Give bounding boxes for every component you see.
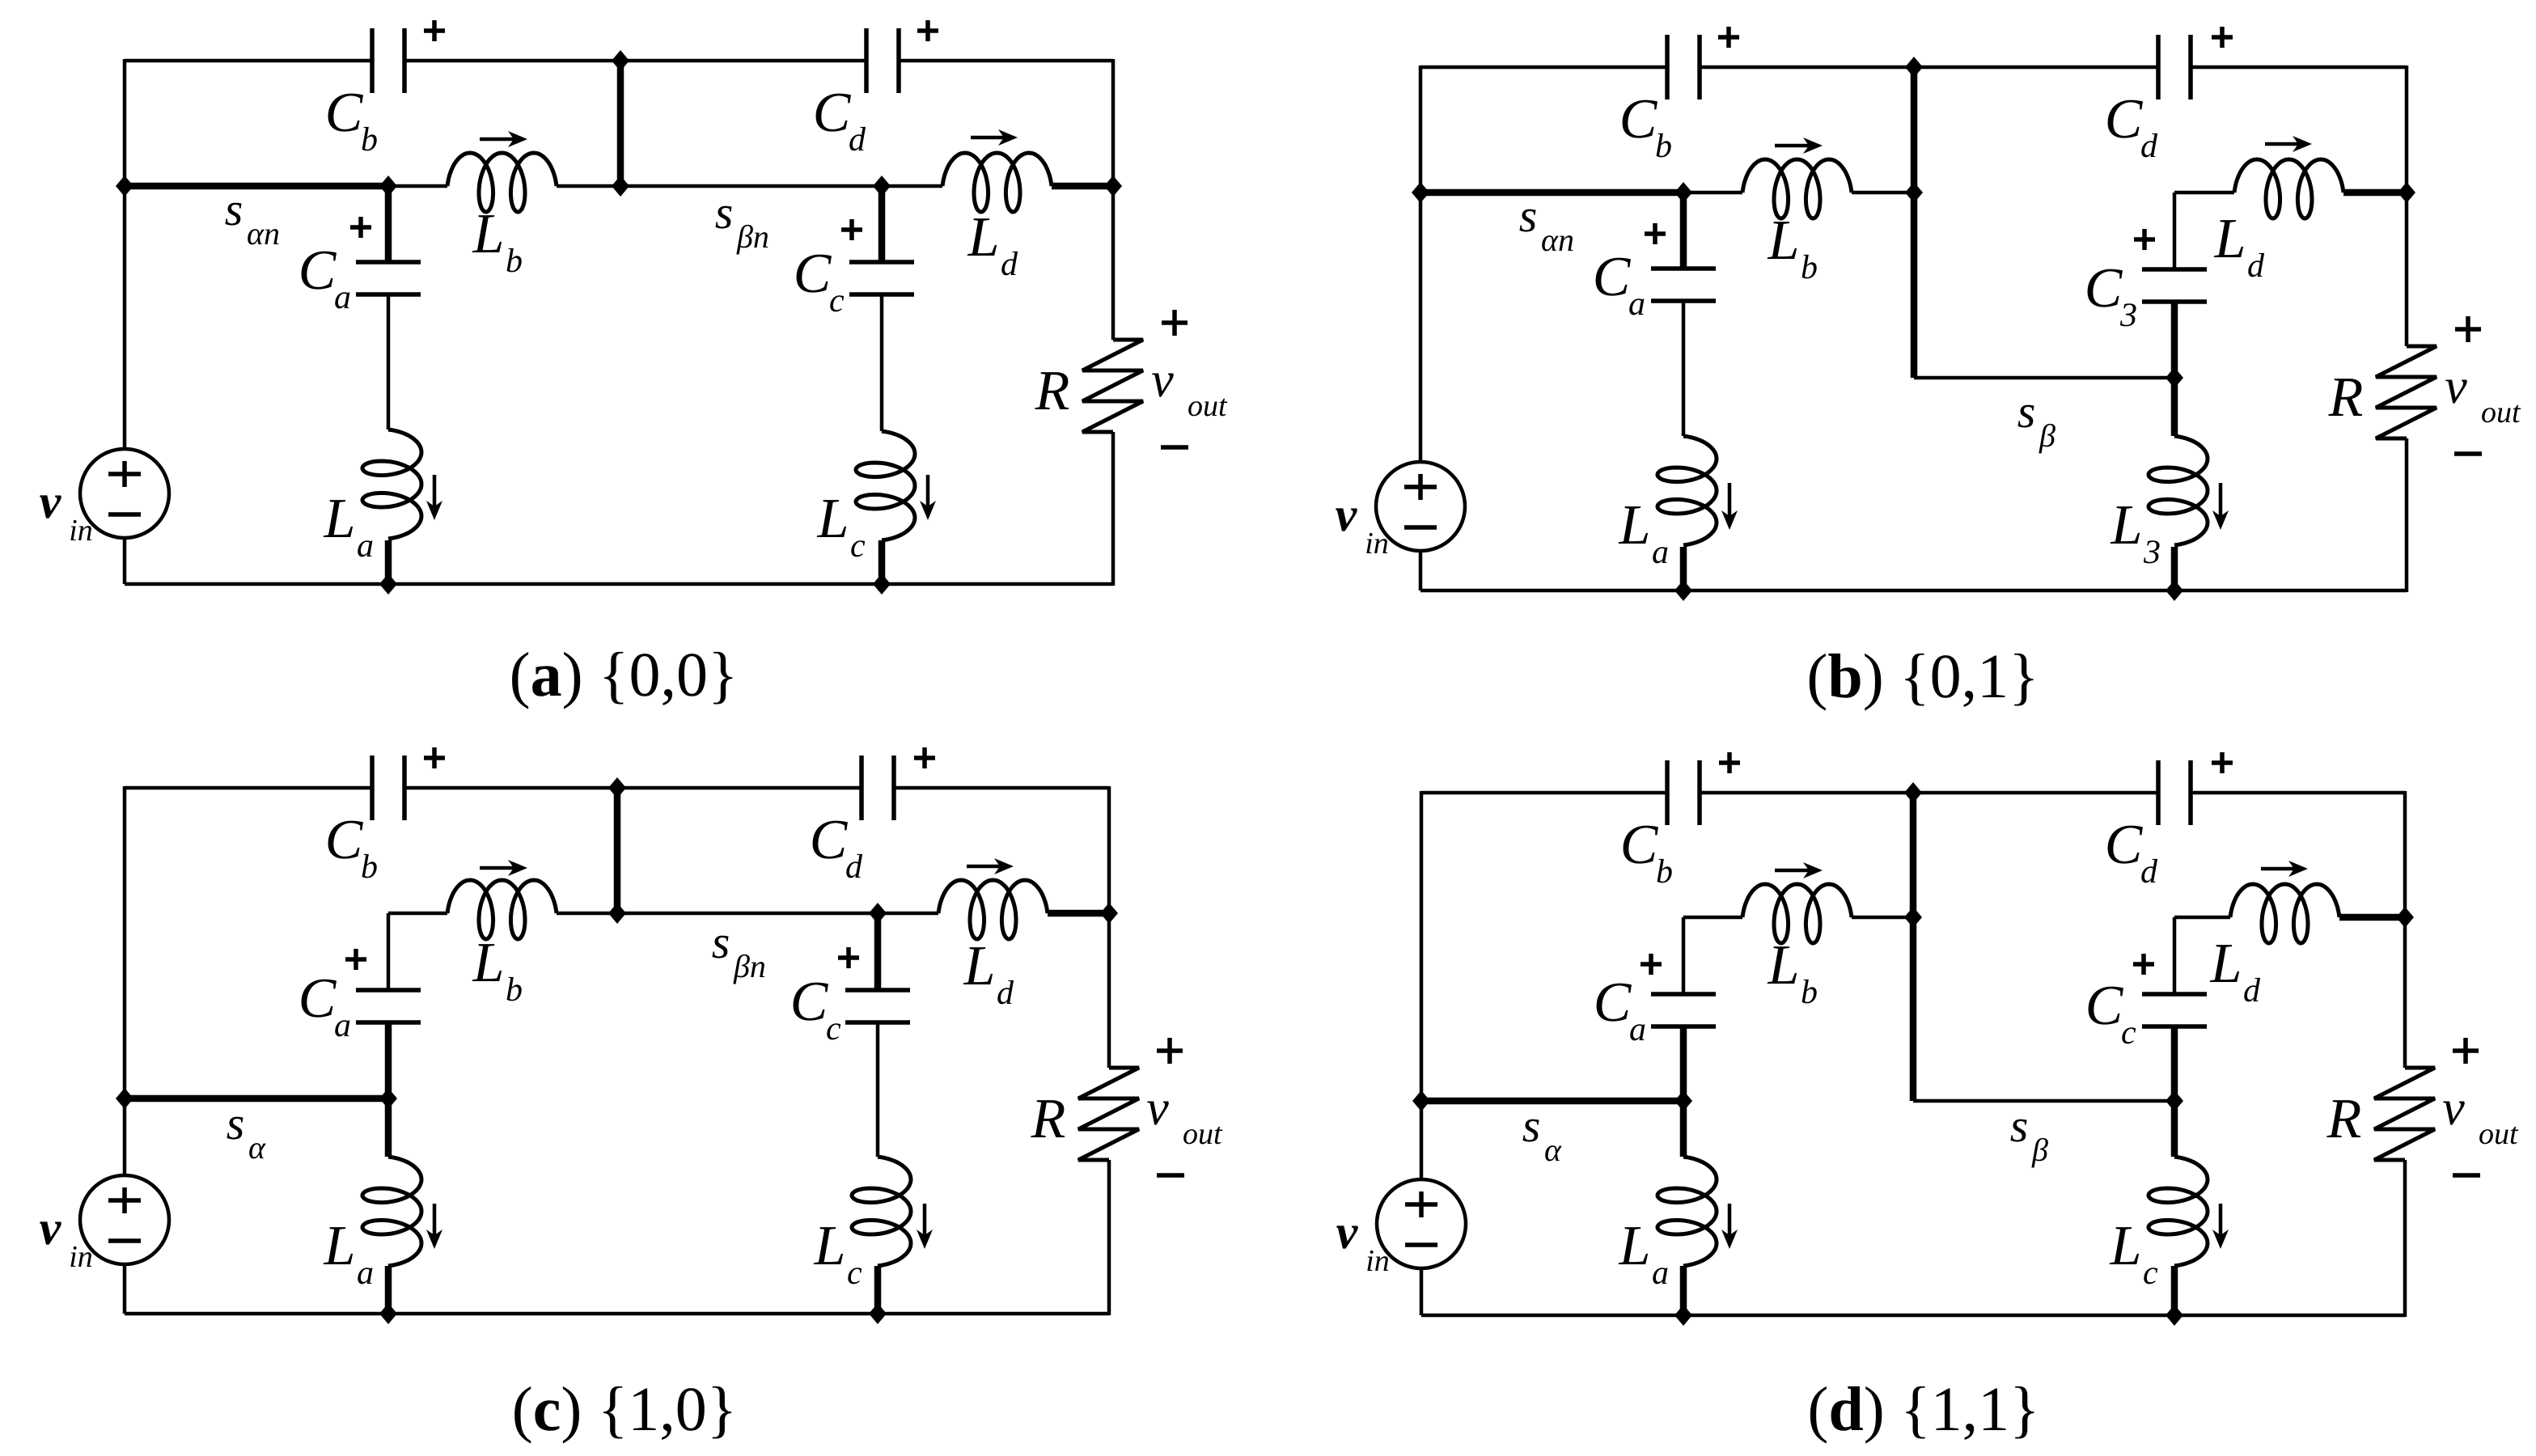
capacitor Cd D xyxy=(2158,760,2191,825)
svg-text:L: L xyxy=(817,488,849,550)
svg-text:α: α xyxy=(1544,1132,1562,1168)
node C node2-mid xyxy=(869,903,887,924)
plus sign Cd A xyxy=(917,20,938,41)
capacitor C3 B xyxy=(2142,269,2207,302)
wire C s_a node to La (thick) xyxy=(385,1098,392,1157)
wire B node1 to Ca (thick) xyxy=(1680,193,1687,269)
node D center-mid xyxy=(1904,907,1922,928)
label vin C xyxy=(40,1201,93,1274)
svg-text:3: 3 xyxy=(2143,534,2161,571)
svg-text:L: L xyxy=(472,932,505,994)
wire D Ca to s_a node (thick) xyxy=(1680,1026,1687,1101)
wire B left rail lower xyxy=(1419,551,1423,590)
svg-text:in: in xyxy=(69,1240,93,1274)
label Lc D xyxy=(2110,1215,2158,1292)
svg-text:b: b xyxy=(1801,249,1818,286)
label Cb A xyxy=(325,82,378,159)
arrow current Lb A xyxy=(480,131,527,147)
svg-text:L: L xyxy=(324,1215,356,1277)
capacitor Ca D xyxy=(1651,994,1716,1026)
svg-text:a: a xyxy=(1628,286,1645,323)
svg-text:out: out xyxy=(1183,1117,1223,1151)
svg-text:C: C xyxy=(2085,975,2124,1037)
plus sign Ca A xyxy=(350,217,371,238)
inductor Lc A xyxy=(856,431,915,540)
label switch s_a C xyxy=(227,1097,266,1166)
arrow current Ld D xyxy=(2261,861,2308,877)
svg-text:a: a xyxy=(334,279,351,316)
arrow current La C xyxy=(426,1204,442,1249)
label Cd A xyxy=(813,82,866,159)
wire C mid rail center to node2 (s_bn) xyxy=(617,912,878,916)
wire D Ld left lead corner xyxy=(2174,916,2230,920)
svg-text:b: b xyxy=(361,849,378,886)
wire A Ld to right rail (thick) xyxy=(1052,183,1113,190)
svg-text:L: L xyxy=(2110,1215,2142,1277)
wire D center column (thick) xyxy=(1910,793,1917,1101)
svg-text:R: R xyxy=(1031,1088,1066,1150)
plus sign Cd B xyxy=(2212,27,2233,48)
inductor La D xyxy=(1658,1157,1717,1266)
wire C top rail middle segment xyxy=(404,786,862,790)
wire A top rail middle segment xyxy=(404,59,866,63)
voltage source vin A xyxy=(80,449,169,538)
wire B right rail lower xyxy=(2405,438,2409,592)
svg-text:L: L xyxy=(963,935,996,997)
node A center-top xyxy=(612,50,629,71)
label vout C xyxy=(1146,1081,1223,1151)
resistor R D xyxy=(2374,1068,2435,1160)
resistor R B xyxy=(2376,346,2437,438)
plus sign Cb C xyxy=(424,747,445,768)
wire D switch s_a closed (thick) xyxy=(1421,1098,1683,1105)
arrow current L3 B xyxy=(2212,483,2229,530)
svg-text:αn: αn xyxy=(1541,222,1574,258)
label vout minus C xyxy=(1157,1173,1184,1178)
inductor Lb C xyxy=(447,880,557,939)
svg-text:L: L xyxy=(967,206,1000,269)
svg-text:a: a xyxy=(357,1255,374,1292)
svg-text:L: L xyxy=(2111,494,2143,557)
wire C switch s_a closed (thick) xyxy=(125,1095,388,1103)
wire A top rail left segment xyxy=(125,59,372,63)
label Lc A xyxy=(817,488,866,565)
svg-text:C: C xyxy=(794,243,832,305)
label vin B xyxy=(1336,488,1389,561)
label Cb B xyxy=(1619,88,1672,165)
label vin D xyxy=(1336,1205,1390,1278)
node D node1-s_a xyxy=(1674,1090,1692,1111)
label Ca D xyxy=(1594,971,1646,1048)
arrow current Lc D xyxy=(2212,1204,2229,1249)
wire D s_b node to Lc (thick) xyxy=(2171,1101,2178,1157)
svg-text:out: out xyxy=(1188,389,1228,423)
svg-text:R: R xyxy=(2326,1088,2362,1150)
node B center-top xyxy=(1905,57,1923,78)
wire D right rail lower xyxy=(2403,1160,2407,1317)
inductor Ld C xyxy=(938,880,1048,939)
label La D xyxy=(1619,1215,1669,1292)
plus sign Cc D xyxy=(2133,954,2154,975)
svg-text:R: R xyxy=(1035,360,1070,422)
label switch s_a D xyxy=(1522,1099,1562,1168)
label Cb C xyxy=(325,809,378,886)
svg-text:L: L xyxy=(814,1215,846,1277)
inductor Lb B xyxy=(1742,159,1852,218)
wire B Ld corner down to C3 xyxy=(2173,193,2177,270)
wire B Ld to right rail (thick) xyxy=(2343,189,2407,197)
wire C right rail upper xyxy=(1107,786,1111,1068)
svg-text:v: v xyxy=(2442,1081,2465,1136)
svg-text:v: v xyxy=(1146,1081,1169,1136)
svg-text:s: s xyxy=(227,1097,245,1149)
svg-text:L: L xyxy=(472,203,505,265)
arrow current La D xyxy=(1721,1204,1738,1249)
resistor R A xyxy=(1082,340,1143,432)
arrow current La A xyxy=(426,475,442,520)
voltage source vin D xyxy=(1377,1179,1466,1268)
svg-text:a: a xyxy=(357,527,374,565)
capacitor Ca C xyxy=(356,990,421,1022)
node C node2-bottom xyxy=(869,1303,887,1324)
wire C Ld to right rail (thick) xyxy=(1048,910,1109,917)
label L3 B xyxy=(2111,494,2161,571)
svg-text:β: β xyxy=(2039,417,2055,454)
svg-text:b: b xyxy=(506,243,523,280)
label Cc A xyxy=(794,243,845,320)
label vout plus B xyxy=(2455,316,2481,342)
svg-text:βn: βn xyxy=(736,218,769,255)
wire B bottom rail xyxy=(1420,589,2407,593)
label Lb B xyxy=(1768,210,1818,286)
wire A node2 to Cc (thick) xyxy=(878,186,886,262)
node A node2-mid xyxy=(873,176,891,197)
label Ca B xyxy=(1593,246,1645,323)
svg-text:C: C xyxy=(1620,814,1659,876)
svg-text:L: L xyxy=(2214,208,2246,270)
svg-text:C: C xyxy=(1619,88,1658,150)
label Lb D xyxy=(1768,934,1818,1011)
capacitor Cb B xyxy=(1667,35,1700,99)
wire C top rail left segment xyxy=(125,786,372,790)
svg-text:3: 3 xyxy=(2119,297,2137,334)
svg-text:L: L xyxy=(2210,933,2242,995)
capacitor Cd A xyxy=(866,28,899,93)
svg-text:b: b xyxy=(1655,128,1672,165)
wire A right rail upper xyxy=(1111,59,1116,340)
label Ld A xyxy=(967,206,1018,283)
plus sign Cc C xyxy=(838,947,859,968)
label Lb C xyxy=(472,932,523,1009)
arrow current Ld A xyxy=(971,129,1018,146)
label vout minus A xyxy=(1161,445,1188,450)
svg-text:C: C xyxy=(2105,88,2144,150)
node B node1-bottom xyxy=(1674,580,1692,601)
label vout B xyxy=(2445,359,2521,430)
wire A switch s_an closed (thick) xyxy=(125,183,388,190)
wire B s_b node to L3 (thick) xyxy=(2171,378,2178,436)
wire D Lb corner down to Ca xyxy=(1682,917,1686,995)
wire D top rail middle segment xyxy=(1700,791,2158,795)
svg-text:a: a xyxy=(1652,534,1669,571)
svg-text:(a) {0,0}: (a) {0,0} xyxy=(510,639,739,709)
capacitor Cb D xyxy=(1667,760,1700,825)
svg-text:d: d xyxy=(2243,972,2261,1009)
wire A mid rail Lb to center xyxy=(557,184,620,188)
svg-text:v: v xyxy=(40,1201,62,1255)
wire D Ld corner down to Cc xyxy=(2173,917,2177,995)
node C node1-s_a xyxy=(379,1088,397,1109)
node B node3-bottom xyxy=(2166,580,2183,601)
svg-text:a: a xyxy=(1629,1011,1646,1048)
plus sign Ca B xyxy=(1645,223,1666,244)
label vout plus C xyxy=(1157,1038,1183,1064)
node C right-mid xyxy=(1100,903,1118,924)
arrow current Lb D xyxy=(1775,862,1823,878)
svg-text:C: C xyxy=(1593,246,1632,308)
inductor Lc C xyxy=(852,1157,911,1266)
label La A xyxy=(324,488,374,565)
wire C center column (thick) xyxy=(614,788,621,913)
wire C Cc to Lc xyxy=(876,1022,880,1157)
svg-text:d: d xyxy=(997,975,1014,1012)
wire C Lb corner down to Ca xyxy=(387,913,391,990)
svg-text:α: α xyxy=(248,1129,266,1166)
plus sign Cb D xyxy=(1719,752,1740,773)
node A node1-mid xyxy=(379,176,397,197)
label vout plus A xyxy=(1162,310,1188,336)
node D right-mid xyxy=(2396,907,2414,928)
svg-text:s: s xyxy=(1522,1099,1541,1152)
node A left-mid xyxy=(116,176,133,197)
svg-text:L: L xyxy=(1768,934,1800,997)
svg-text:d: d xyxy=(2140,853,2158,891)
svg-text:in: in xyxy=(1365,527,1389,561)
node D node1-bottom xyxy=(1674,1305,1692,1326)
plus sign Cc A xyxy=(841,219,862,240)
label Ld D xyxy=(2210,933,2261,1009)
label Ca C xyxy=(298,967,351,1044)
wire A mid rail node2 to Ld xyxy=(882,184,942,188)
svg-text:d: d xyxy=(845,849,863,886)
arrow current Lc A xyxy=(920,475,936,520)
svg-text:L: L xyxy=(1619,494,1651,557)
wire A top rail right segment xyxy=(898,59,1113,63)
svg-text:v: v xyxy=(1151,353,1174,408)
label vout A xyxy=(1151,353,1228,423)
wire C mid rail Lb to center xyxy=(557,912,617,916)
svg-text:C: C xyxy=(325,809,364,871)
svg-text:C: C xyxy=(2105,814,2144,876)
wire D left rail upper xyxy=(1420,791,1424,1179)
label Cc C xyxy=(790,971,841,1048)
svg-text:C: C xyxy=(298,239,337,302)
svg-text:L: L xyxy=(324,488,356,550)
wire B mid rail node1 to Lb xyxy=(1683,191,1742,195)
capacitor Cd B xyxy=(2158,35,2191,99)
wire D bottom rail xyxy=(1421,1314,2405,1318)
wire C mid rail node2 to Ld xyxy=(878,912,938,916)
svg-text:βn: βn xyxy=(733,948,766,984)
label La B xyxy=(1619,494,1669,571)
inductor La C xyxy=(362,1157,421,1266)
svg-text:αn: αn xyxy=(247,215,280,252)
label Cd B xyxy=(2105,88,2158,165)
wire B center column (thick) xyxy=(1911,67,1918,378)
wire B La to bottom (thick) xyxy=(1680,547,1687,590)
svg-text:s: s xyxy=(225,183,243,235)
capacitor Cd C xyxy=(862,756,894,820)
svg-text:R: R xyxy=(2328,366,2364,429)
svg-text:b: b xyxy=(506,971,523,1009)
voltage source vin C xyxy=(80,1175,169,1264)
wire C left rail lower xyxy=(123,1264,127,1314)
arrow current La B xyxy=(1721,483,1738,530)
wire A right rail lower xyxy=(1111,432,1116,586)
label switch s_bn A xyxy=(715,186,769,255)
wire C La to bottom (thick) xyxy=(385,1266,392,1314)
inductor L3 B xyxy=(2149,436,2208,545)
wire B mid rail Lb to center xyxy=(1852,191,1914,195)
wire D Cc to s_b node (thick) xyxy=(2171,1026,2178,1101)
svg-text:v: v xyxy=(2445,359,2467,414)
svg-text:v: v xyxy=(40,475,62,528)
wire D switch s_b horizontal xyxy=(1913,1099,2174,1103)
wire C node2 to Cc (thick) xyxy=(874,913,882,990)
svg-text:C: C xyxy=(298,967,337,1030)
inductor Ld A xyxy=(942,153,1052,212)
plus sign Cb A xyxy=(424,20,445,41)
wire A mid rail node1 to Lb xyxy=(388,184,447,188)
wire B right rail upper xyxy=(2405,66,2409,346)
svg-text:b: b xyxy=(361,121,378,159)
wire D La to bottom (thick) xyxy=(1680,1266,1687,1315)
inductor Lb A xyxy=(447,153,557,212)
svg-text:(b) {0,1}: (b) {0,1} xyxy=(1806,641,2039,711)
svg-text:C: C xyxy=(1594,971,1632,1034)
svg-text:L: L xyxy=(1768,210,1800,272)
svg-text:in: in xyxy=(69,514,93,548)
wire B Ca to La xyxy=(1682,301,1686,436)
label vout minus D xyxy=(2453,1173,2480,1178)
wire B L3 to bottom (thick) xyxy=(2171,547,2178,590)
svg-text:d: d xyxy=(2140,128,2158,165)
svg-text:out: out xyxy=(2479,1117,2519,1151)
arrow current Ld C xyxy=(967,858,1014,874)
wire A Cc to Lc xyxy=(880,294,884,431)
node B center-mid xyxy=(1905,182,1923,203)
wire C Lb corner lead xyxy=(388,912,447,916)
capacitor Ca A xyxy=(356,262,421,294)
label switch s_an A xyxy=(225,183,280,252)
label Cd C xyxy=(810,809,863,886)
arrow current Lc C xyxy=(917,1204,933,1249)
svg-text:C: C xyxy=(813,82,852,144)
plus sign Ca D xyxy=(1641,954,1662,975)
svg-text:β: β xyxy=(2031,1132,2048,1168)
node B right-mid xyxy=(2398,182,2415,203)
wire D mid rail Lb to center xyxy=(1852,916,1913,920)
wire B switch s_b horizontal xyxy=(1914,376,2174,380)
node C node1-bottom xyxy=(379,1303,397,1324)
svg-text:c: c xyxy=(850,527,866,565)
label Lb A xyxy=(472,203,523,280)
inductor Lb D xyxy=(1742,884,1852,943)
svg-text:d: d xyxy=(2247,248,2265,285)
label vout D xyxy=(2442,1081,2519,1151)
svg-text:L: L xyxy=(1619,1215,1651,1277)
wire B top rail right segment xyxy=(2191,66,2407,70)
plus sign Ca C xyxy=(345,949,366,970)
wire A La to bottom (thick) xyxy=(385,540,392,584)
wire A node1 to Ca (thick) xyxy=(385,186,392,262)
plus sign C3 B xyxy=(2134,229,2155,250)
inductor Lc D xyxy=(2149,1157,2208,1266)
node C center-top xyxy=(608,777,626,798)
plus sign Cb B xyxy=(1718,27,1739,48)
svg-text:(d) {1,1}: (d) {1,1} xyxy=(1807,1373,2039,1444)
label C3 B xyxy=(2085,257,2137,334)
arrow current Lb C xyxy=(480,860,527,876)
node B node1-mid xyxy=(1674,182,1692,203)
svg-text:b: b xyxy=(1656,853,1673,891)
svg-text:s: s xyxy=(2017,385,2036,438)
wire D Ld to right rail (thick) xyxy=(2339,914,2405,921)
svg-text:s: s xyxy=(1519,189,1538,242)
wire D left rail lower xyxy=(1420,1268,1424,1315)
svg-text:c: c xyxy=(2121,1014,2136,1052)
capacitor Cc A xyxy=(849,262,914,294)
svg-text:v: v xyxy=(1336,1205,1359,1259)
svg-text:C: C xyxy=(790,971,829,1033)
label vout minus B xyxy=(2454,451,2482,456)
capacitor Cb A xyxy=(372,28,404,93)
wire C bottom rail xyxy=(125,1312,1109,1316)
label switch s_b B xyxy=(2017,385,2055,454)
svg-text:c: c xyxy=(829,282,845,320)
svg-text:out: out xyxy=(2481,396,2521,430)
wire B C3 to s_b node (thick) xyxy=(2171,301,2178,378)
svg-text:b: b xyxy=(1801,974,1818,1011)
svg-text:s: s xyxy=(712,916,730,968)
svg-text:d: d xyxy=(849,121,866,159)
node D s_b-node xyxy=(2166,1090,2183,1111)
capacitor Ca B xyxy=(1651,269,1716,301)
svg-text:C: C xyxy=(810,809,849,871)
node B left-mid xyxy=(1412,182,1429,203)
svg-text:s: s xyxy=(715,186,734,239)
wire D top rail left segment xyxy=(1421,791,1667,795)
node D center-top xyxy=(1904,782,1922,803)
svg-text:d: d xyxy=(1001,246,1018,283)
wire D right rail upper xyxy=(2403,791,2407,1068)
wire C left rail upper xyxy=(123,786,127,1175)
wire A mid rail center to node2 (s_bn) xyxy=(620,184,882,188)
wire B left rail upper xyxy=(1419,66,1423,462)
label vin A xyxy=(40,475,93,548)
label Ca A xyxy=(298,239,351,316)
capacitor Cc C xyxy=(845,990,910,1022)
svg-text:C: C xyxy=(325,82,364,144)
label Ld C xyxy=(963,935,1014,1012)
node A node2-bottom xyxy=(873,574,891,595)
capacitor Cc D xyxy=(2142,994,2207,1026)
label Ld B xyxy=(2214,208,2265,285)
svg-text:in: in xyxy=(1365,1244,1390,1278)
arrow current Ld B xyxy=(2265,136,2312,152)
label vout plus D xyxy=(2453,1038,2479,1064)
wire B switch s_an closed (thick) xyxy=(1420,189,1683,197)
